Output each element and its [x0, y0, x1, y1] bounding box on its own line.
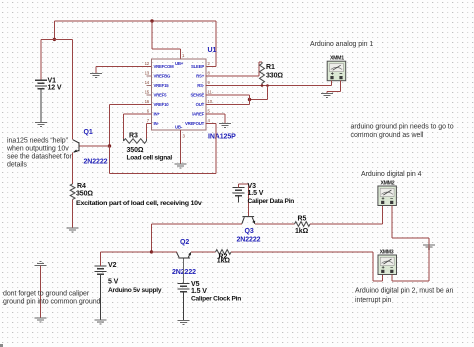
svg-text:VREF15: VREF15 — [154, 83, 170, 88]
svg-text:Arduino analog pin 1: Arduino analog pin 1 — [310, 41, 373, 48]
wire XMM2 right lead to ground — [392, 206, 429, 245]
wire SLEEP pin 2 riser — [206, 21, 217, 67]
node junction top rail to U1 UB+ — [150, 19, 153, 22]
multimeter XMM1 — [327, 61, 346, 80]
svg-text:UB+: UB+ — [175, 61, 184, 66]
svg-text:Caliper Data Pin: Caliper Data Pin — [248, 198, 295, 205]
multimeter XMM3 — [378, 255, 397, 275]
transistor Q2 2N2222 — [177, 252, 191, 258]
wire UB- pin 3 to ground — [180, 130, 182, 164]
wire RS- rail to XMM1 — [206, 85, 332, 87]
svg-text:IN+: IN+ — [154, 112, 161, 117]
svg-text:UB-: UB- — [175, 125, 183, 130]
svg-text:R3: R3 — [129, 133, 138, 140]
svg-text:350Ω: 350Ω — [127, 147, 144, 154]
wire RS+ pin 8 to R1 top — [206, 62, 263, 76]
wire VREFOUT pin 4 stub — [206, 123, 217, 125]
svg-text:see the datasheet for: see the datasheet for — [7, 154, 72, 161]
svg-text:VREFBG: VREFBG — [154, 74, 171, 79]
corner mark — [0, 344, 3, 347]
svg-text:OUT: OUT — [196, 102, 205, 107]
wire Q1 emitter to R4 — [72, 152, 74, 184]
svg-text:XMM3: XMM3 — [380, 249, 394, 255]
wire R5 to XMM2 — [310, 206, 383, 224]
svg-text:2N2222: 2N2222 — [237, 236, 261, 243]
op-amp U1 INA125P body — [152, 59, 207, 130]
node RS- branch junction — [266, 84, 269, 87]
svg-text:R4: R4 — [77, 183, 86, 190]
svg-text:350Ω: 350Ω — [76, 190, 93, 197]
ground below V2 — [95, 320, 107, 324]
svg-text:RS+: RS+ — [196, 74, 205, 79]
ground at XMM1 — [321, 94, 333, 98]
battery V5 — [178, 283, 190, 320]
svg-text:Q3: Q3 — [245, 228, 254, 235]
svg-text:XMM1: XMM1 — [330, 56, 344, 62]
wire XMM3 right lead to ground — [392, 245, 429, 281]
svg-text:ina125 needs “help”: ina125 needs “help” — [7, 138, 69, 145]
ground below U1 — [175, 164, 187, 168]
node junction 5V rail — [150, 250, 153, 253]
svg-text:Arduino digital pin 4: Arduino digital pin 4 — [361, 171, 422, 178]
multimeter XMM2 — [378, 186, 397, 206]
wire XMM1 left lead — [331, 81, 333, 86]
resistor R4 — [70, 184, 75, 200]
ground bottom left — [34, 318, 46, 322]
svg-text:arduino ground pin needs to go: arduino ground pin needs to go to — [351, 123, 454, 130]
svg-text:R5: R5 — [298, 215, 307, 222]
wire 5V rail corner to Q3 collector — [152, 224, 242, 252]
svg-text:R1: R1 — [266, 64, 275, 71]
svg-text:Arduino digital pin 2, must be: Arduino digital pin 2, must be an — [355, 288, 454, 295]
svg-text:SLEEP: SLEEP — [191, 64, 204, 69]
svg-text:VREF5: VREF5 — [154, 93, 168, 98]
svg-text:1.5 V: 1.5 V — [191, 288, 207, 295]
ground inverted top left bottom — [34, 262, 46, 266]
svg-text:common ground as well: common ground as well — [351, 132, 424, 139]
svg-text:ground pin into common ground: ground pin into common ground — [3, 299, 101, 306]
svg-text:RS-: RS- — [197, 83, 205, 88]
wire VREF10 to Q1 base net — [110, 105, 152, 147]
ground below R4 — [67, 228, 79, 232]
svg-text:Load cell signal: Load cell signal — [127, 155, 173, 162]
svg-text:V3: V3 — [248, 183, 257, 190]
U1 left pin stubs 13,14,15 — [147, 76, 152, 95]
wire Q2 base to V5 — [183, 259, 185, 284]
wire R2 to XMM3 — [231, 252, 382, 281]
svg-text:330Ω: 330Ω — [266, 72, 283, 79]
battery V3 — [233, 187, 245, 202]
battery V1 — [35, 80, 47, 122]
svg-text:1kΩ: 1kΩ — [217, 258, 231, 265]
svg-text:V2: V2 — [108, 262, 117, 269]
svg-text:1kΩ: 1kΩ — [295, 228, 309, 235]
wire IN+ to R3 left — [124, 114, 152, 139]
transistor Q1 2N2222 — [73, 140, 79, 153]
svg-text:SENSE: SENSE — [191, 93, 205, 98]
svg-text:U1: U1 — [208, 47, 217, 54]
wire Q1 base — [79, 145, 110, 147]
wire XMM1 right lead to ground — [327, 81, 341, 93]
resistor R2 — [216, 250, 232, 255]
wire R4 to ground — [72, 199, 74, 227]
wire rail junction to Q2 collector — [152, 251, 177, 253]
resistor R1 — [260, 62, 265, 86]
transistor Q3 2N2222 — [242, 217, 255, 224]
svg-text:dont forget to ground caliper: dont forget to ground caliper — [3, 291, 90, 298]
wire IAREF pin 5 to ground — [206, 114, 226, 123]
svg-text:1.5 V: 1.5 V — [248, 190, 264, 197]
svg-text:Arduino 5v supply: Arduino 5v supply — [108, 287, 162, 294]
svg-text:VREFCOM: VREFCOM — [154, 64, 175, 69]
battery V2 — [95, 266, 107, 320]
svg-text:IN-: IN- — [154, 121, 160, 126]
svg-text:details: details — [7, 162, 27, 169]
ground below V1 — [35, 122, 47, 126]
wire V2 top to 5V rail — [101, 252, 152, 266]
ground below V5 — [178, 321, 190, 325]
svg-text:12 V: 12 V — [48, 85, 62, 92]
wire Q3 emitter to R5 — [255, 223, 295, 225]
svg-text:V1: V1 — [48, 77, 57, 84]
ground at VREFCOM — [90, 74, 102, 78]
svg-text:interrupt pin: interrupt pin — [355, 297, 391, 304]
ground shared XMM2/XMM3 — [423, 245, 435, 249]
node junction SENSE/OUT — [248, 98, 251, 101]
ground at IAREF — [219, 124, 231, 128]
svg-text:IAREF: IAREF — [192, 112, 204, 117]
wire SENSE pin 11 — [206, 94, 250, 96]
wire IN- to R3 right — [147, 124, 152, 139]
svg-text:Caliper Clock Pin: Caliper Clock Pin — [191, 296, 241, 303]
wire top rail V1+ to SLEEP riser — [54, 20, 216, 22]
svg-text:5 V: 5 V — [108, 278, 119, 285]
svg-text:VREF10: VREF10 — [154, 102, 170, 107]
wire OUT pin 10 — [206, 95, 250, 105]
wire V3 top to Q3 base — [239, 184, 249, 216]
wire V1+ riser to junction — [53, 21, 55, 39]
wire junction to Q1 collector — [54, 39, 72, 139]
svg-text:V5: V5 — [191, 281, 200, 288]
svg-text:VREFOUT: VREFOUT — [185, 121, 205, 126]
svg-text:XMM2: XMM2 — [381, 180, 395, 186]
svg-text:Q2: Q2 — [180, 239, 189, 246]
wire Q2 emitter to R2 — [191, 251, 216, 253]
svg-text:2N2222: 2N2222 — [84, 159, 108, 166]
svg-text:when outputting 10v: when outputting 10v — [6, 146, 69, 153]
resistor R5 — [295, 222, 311, 227]
resistor R3 — [124, 139, 147, 144]
wire top rail to U1 pin 1 — [152, 21, 181, 59]
node junction V1 top — [53, 38, 56, 41]
wire branch down to sense net — [250, 86, 268, 100]
wire junction down to feedback rail — [110, 124, 217, 174]
wire common ground link — [39, 266, 41, 318]
wire VREFCOM pin 12 to ground — [96, 67, 152, 74]
node junction Q1 base — [108, 144, 111, 147]
node R1 bottom junction — [261, 84, 264, 87]
svg-text:Q1: Q1 — [84, 129, 93, 136]
svg-text:Excitation part of load cell,: Excitation part of load cell, receiving … — [76, 200, 202, 207]
svg-text:INA125P: INA125P — [208, 134, 236, 141]
wire junction to V1 battery — [41, 39, 54, 80]
